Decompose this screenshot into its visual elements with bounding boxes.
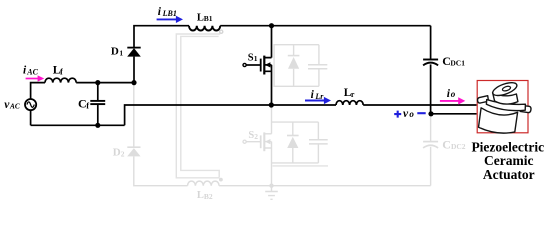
arrow iAC [26, 75, 45, 81]
wire source top [31, 83, 45, 99]
wire S2 source down [271, 142, 273, 186]
svg-text:o: o [451, 89, 456, 99]
inductor Lr [336, 101, 363, 105]
svg-text:f: f [86, 101, 89, 111]
wire D1 cathode to top rail [134, 26, 189, 48]
svg-text:f: f [60, 67, 63, 77]
svg-text:Piezoelectric: Piezoelectric [471, 139, 544, 154]
top cylinder [493, 93, 518, 104]
svg-text:Lr: Lr [314, 92, 324, 101]
wire S2 drain to mid rail [271, 105, 273, 134]
label - of vO [417, 112, 425, 114]
svg-text:AC: AC [9, 101, 20, 110]
hole [502, 85, 511, 91]
svg-text:DC1: DC1 [450, 58, 465, 67]
wire D1 anode [133, 57, 135, 83]
node output vO [428, 111, 433, 116]
top ellipse [491, 80, 518, 98]
svg-text:S2: S2 [248, 130, 258, 141]
svg-text:1: 1 [254, 54, 258, 63]
wire source bottom [30, 110, 32, 125]
wire mid-rail left corner [125, 105, 336, 125]
wire bottom rail [219, 185, 431, 187]
wire bottom-left rail [31, 124, 125, 126]
inductor Lf [45, 78, 76, 82]
wire output to actuator [431, 113, 477, 115]
svg-text:AC: AC [26, 67, 38, 76]
wire D2 anode branch from AC node [133, 83, 135, 147]
capacitor CDC1 [430, 26, 432, 60]
wire CDC2 to bottom rail [430, 147, 432, 186]
capacitor parasitic box1 [308, 65, 327, 69]
diode body box2 [292, 122, 294, 163]
node LB2 dot mark [219, 178, 223, 182]
wire top-left rail [76, 82, 134, 84]
ground [265, 186, 278, 200]
module box 1 [274, 45, 319, 87]
wire ghost bracket inner (LB2 loop) [181, 36, 219, 177]
wire S1 drain/source vertical [271, 26, 273, 105]
svg-text:v: v [403, 108, 409, 120]
node S1 drain [269, 23, 274, 28]
piezoelectric actuator box [477, 81, 528, 133]
transistor S1 [243, 63, 246, 66]
node AC-Lf-Cf [95, 80, 100, 85]
svg-text:D: D [111, 46, 119, 58]
diode body box1 [293, 45, 295, 87]
node D1 anode [131, 80, 136, 85]
capacitor Cf [97, 83, 99, 101]
svg-text:Actuator: Actuator [483, 167, 535, 182]
inductor LB2 [188, 181, 220, 186]
wire ghost bracket outer (LB2 loop) [176, 34, 220, 178]
wire mid-rail right [363, 104, 476, 106]
svg-text:1: 1 [119, 48, 123, 57]
module box 2 [272, 122, 319, 163]
left tab [478, 96, 489, 103]
diode D1 [127, 48, 141, 57]
node S2 source junction [269, 184, 273, 188]
label + of vO [394, 111, 401, 118]
node S1 source mid-rail [269, 102, 274, 107]
bottom cylinder [479, 108, 518, 133]
svg-text:Ceramic: Ceramic [484, 153, 533, 168]
flange [486, 100, 525, 111]
inductor LB1 [189, 26, 220, 31]
svg-text:r: r [351, 90, 355, 99]
wire ghost stub below box2 [273, 165, 329, 167]
svg-text:S: S [248, 52, 254, 63]
wire top rail right [220, 25, 430, 27]
svg-text:LB1: LB1 [162, 9, 177, 18]
arrow iLB1 [157, 16, 183, 23]
svg-text:B1: B1 [204, 14, 213, 23]
wire CDC1 to output node [430, 64, 432, 113]
source vAC [25, 99, 36, 110]
piezoelectric actuator icon [478, 80, 531, 133]
right tab [520, 105, 531, 112]
svg-text:o: o [409, 109, 414, 119]
transistor S2 [243, 140, 246, 143]
node ghost dot below LB1 [220, 30, 223, 33]
node Cf bottom [95, 123, 100, 128]
arrow iLr [305, 97, 331, 104]
arrow iO [440, 97, 465, 104]
capacitor parasitic box2 [309, 140, 328, 144]
diode D2 [127, 146, 140, 148]
svg-text:LB2: LB2 [197, 190, 213, 201]
capacitor CDC2 [430, 114, 432, 142]
wire D2 to bottom rail [134, 156, 188, 185]
